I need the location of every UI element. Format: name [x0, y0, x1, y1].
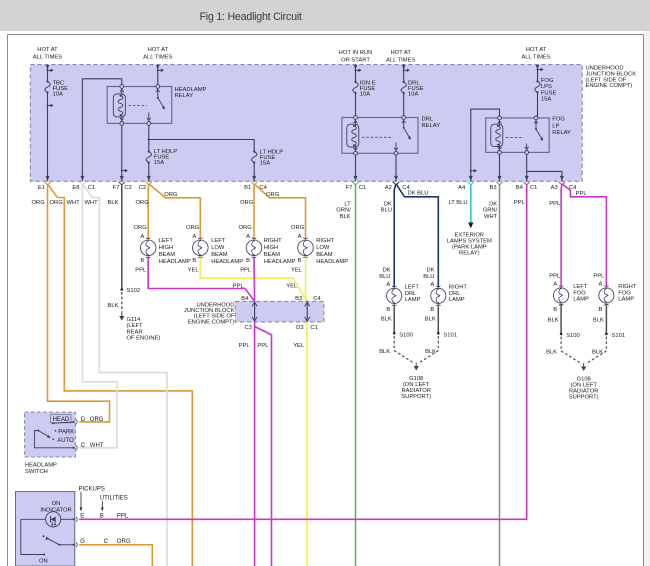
ON indicator internal switch	[43, 535, 76, 546]
underhood junction block label	[586, 66, 637, 90]
svg-text:PARK: PARK	[58, 429, 74, 435]
svg-text:HOT IN RUN: HOT IN RUN	[339, 50, 373, 56]
svg-text:HOT AT: HOT AT	[390, 50, 411, 56]
wire label ORG	[164, 192, 178, 198]
pin E8 / C1	[72, 176, 95, 191]
svg-text:ORG: ORG	[90, 417, 104, 423]
wire DRL fuse feed	[402, 65, 410, 116]
svg-text:ORG: ORG	[164, 192, 178, 198]
svg-text:BLU: BLU	[381, 208, 392, 214]
svg-text:F7: F7	[113, 185, 120, 191]
wire IGN E feed	[354, 65, 362, 116]
svg-text:G114: G114	[127, 317, 142, 323]
svg-text:(PARK LAMP: (PARK LAMP	[452, 245, 487, 251]
svg-text:HEADLAMP: HEADLAMP	[159, 259, 191, 265]
svg-text:B: B	[100, 514, 104, 520]
fuse IGN E FUSE 10A	[353, 80, 376, 97]
svg-text:A: A	[553, 282, 557, 288]
wire WHT from C1 running off page	[82, 184, 167, 566]
svg-text:B: B	[298, 258, 302, 264]
small junction block label	[184, 302, 235, 325]
wire YEL left low beam to junction block B3	[188, 257, 308, 301]
ON indicator lower contact	[21, 519, 48, 564]
svg-text:B3: B3	[490, 185, 497, 191]
svg-text:BLK: BLK	[592, 349, 603, 355]
svg-text:BLK: BLK	[546, 349, 557, 355]
svg-text:BEAM: BEAM	[159, 252, 176, 258]
svg-text:A2: A2	[385, 185, 392, 191]
svg-text:ORG: ORG	[134, 225, 148, 231]
svg-text:ORG: ORG	[240, 200, 254, 206]
svg-text:PPL: PPL	[239, 343, 251, 349]
pin F7 / C2	[113, 176, 132, 191]
wire headlamp relay coil to ground pin	[121, 125, 128, 181]
svg-text:BLK: BLK	[425, 317, 436, 323]
svg-text:HIGH: HIGH	[264, 245, 279, 251]
wire ORG B1/C4 to right low beam headlamp	[254, 184, 305, 239]
feed label HOT AT ALL TIMES (DRL fuse)	[386, 50, 415, 64]
lamp right fog lamp	[599, 282, 637, 313]
lamp left DRL lamp	[386, 282, 420, 313]
svg-text:A: A	[430, 282, 434, 288]
svg-text:REAR: REAR	[127, 329, 143, 335]
svg-text:PPL: PPL	[240, 268, 252, 274]
wire label ORG	[186, 225, 200, 231]
svg-text:RIGHT: RIGHT	[449, 285, 467, 291]
svg-text:BLK: BLK	[108, 200, 119, 206]
svg-text:ALL TIMES: ALL TIMES	[386, 58, 415, 64]
svg-text:AUTO: AUTO	[57, 438, 74, 444]
DRL relay switch	[362, 116, 411, 156]
headlamp switch lever and common	[35, 430, 75, 448]
svg-text:C4: C4	[313, 296, 321, 302]
svg-text:PPL: PPL	[135, 268, 147, 274]
wire ORG from E1 branch running off page	[48, 184, 193, 566]
svg-text:DRL: DRL	[422, 117, 434, 123]
headlamp switch HEAD position	[51, 415, 75, 425]
svg-text:OR START: OR START	[341, 58, 370, 64]
svg-text:DRL: DRL	[449, 291, 461, 297]
svg-text:BLK: BLK	[379, 349, 390, 355]
wire headlamp relay output	[148, 125, 255, 181]
svg-text:A: A	[599, 282, 603, 288]
wire BLK left DRL lamp to splice S100	[381, 305, 395, 334]
svg-text:RIGHT: RIGHT	[618, 284, 636, 290]
svg-text:LAMP: LAMP	[618, 297, 634, 303]
svg-text:ORG: ORG	[50, 200, 64, 206]
headlamp relay switch	[129, 85, 166, 126]
svg-text:YEL: YEL	[188, 268, 200, 274]
wire BLK dashed to ground G114	[108, 292, 122, 313]
svg-text:LP: LP	[552, 123, 559, 129]
relay FOG LP RELAY	[486, 117, 571, 153]
svg-text:E8: E8	[72, 185, 79, 191]
svg-text:HEADLAMP: HEADLAMP	[264, 259, 296, 265]
wire LT GRN/BLK from F7/C1 running off page	[336, 184, 355, 566]
svg-text:BLK: BLK	[108, 303, 119, 309]
ON indicator box	[16, 492, 75, 566]
svg-text:C1: C1	[88, 185, 95, 191]
splice S101 (fog)	[605, 333, 625, 339]
svg-text:ENGINE COMPT): ENGINE COMPT)	[188, 319, 235, 325]
svg-text:B4: B4	[241, 296, 249, 302]
wire FOG relay output to pins B4 and A3	[527, 154, 562, 181]
svg-text:S101: S101	[612, 333, 626, 339]
svg-text:DK: DK	[382, 268, 390, 274]
svg-text:HEADLAMP: HEADLAMP	[25, 462, 57, 468]
svg-text:FOG: FOG	[573, 290, 586, 296]
underhood junction block (main)	[30, 65, 582, 182]
headlamp relay coil	[113, 85, 125, 126]
wire BLK right fog lamp to splice S101	[593, 304, 607, 334]
fuse DRL FUSE 10A	[401, 80, 424, 97]
svg-text:PPL: PPL	[233, 283, 245, 289]
title bar	[0, 0, 650, 31]
wire YEL from D3/C1 running off page	[293, 322, 307, 566]
wire DK GRN/WHT from B3 running off page	[483, 184, 500, 566]
wire BLK to splice S102	[108, 184, 122, 290]
svg-text:BLU: BLU	[379, 274, 390, 280]
wire label ORG	[134, 225, 148, 231]
svg-text:C2: C2	[139, 185, 146, 191]
feed label HOT IN RUN OR START	[339, 50, 373, 64]
wire BLK left fog lamp to splice S100	[548, 304, 562, 334]
svg-text:B4: B4	[516, 185, 524, 191]
splice S100	[393, 332, 413, 338]
wire DRL relay coil to pin F7	[355, 155, 357, 181]
svg-text:PPL: PPL	[549, 201, 561, 207]
wire BLK right DRL lamp to splice S101	[425, 305, 439, 334]
svg-text:YEL: YEL	[286, 283, 298, 289]
svg-text:FOG: FOG	[541, 78, 554, 84]
svg-text:ORG: ORG	[291, 225, 305, 231]
pin A4	[458, 176, 474, 191]
LED ON indicator	[21, 512, 75, 527]
svg-text:DK BLU: DK BLU	[408, 191, 429, 197]
wire WHT from E8 to headlamp switch pin C	[79, 184, 117, 448]
wire ORG C2 to left high beam headlamp	[147, 184, 150, 239]
svg-text:RIGHT: RIGHT	[264, 238, 282, 244]
svg-text:ALL TIMES: ALL TIMES	[521, 54, 550, 60]
pin A2 / C4	[385, 176, 411, 191]
connector pin D	[73, 417, 104, 424]
svg-text:PPL: PPL	[514, 200, 526, 206]
svg-text:PPL: PPL	[117, 514, 129, 520]
wire label ORG	[266, 192, 280, 198]
svg-text:F7: F7	[346, 185, 353, 191]
splice S100 (fog)	[560, 333, 580, 339]
svg-text:C3: C3	[244, 325, 251, 331]
lamp right DRL lamp	[430, 282, 467, 313]
svg-text:LAMPS SYSTEM: LAMPS SYSTEM	[447, 238, 492, 244]
DRL relay coil	[347, 116, 359, 156]
wire label ORG	[240, 200, 254, 206]
splice S102	[121, 288, 141, 294]
lamp right high beam headlamp	[246, 234, 296, 265]
wire DRL relay output to pin A2	[395, 155, 397, 181]
connector pin G	[73, 539, 131, 547]
ground G114 (LEFT REAR OF ENGINE)	[119, 313, 160, 342]
wire PPL right high beam to junction block B4	[240, 257, 254, 301]
headlamp switch PARK position	[55, 429, 75, 435]
fuse FOG LPS FUSE 15A	[535, 78, 557, 103]
svg-text:RELAY): RELAY)	[459, 251, 480, 257]
pin C2	[139, 176, 152, 191]
svg-text:WHT: WHT	[85, 200, 99, 206]
svg-text:DK: DK	[426, 268, 434, 274]
splice S101	[437, 332, 457, 338]
svg-text:S102: S102	[127, 288, 141, 294]
pin B3	[490, 176, 503, 191]
svg-text:BLK: BLK	[425, 349, 436, 355]
svg-text:HIGH: HIGH	[159, 245, 174, 251]
wire label ORG	[291, 225, 305, 231]
svg-text:LEFT: LEFT	[405, 285, 420, 291]
relay DRL RELAY	[342, 117, 440, 154]
svg-text:B: B	[246, 258, 250, 264]
small junction block pin B3-C4/D3-C1	[295, 296, 321, 331]
svg-text:15A: 15A	[541, 97, 551, 103]
svg-text:ENGINE COMPT): ENGINE COMPT)	[586, 83, 633, 89]
wire PPL from C3 running off page	[239, 322, 255, 566]
svg-text:DK: DK	[384, 202, 392, 208]
svg-text:BLK: BLK	[381, 317, 392, 323]
svg-text:A: A	[386, 282, 390, 288]
svg-text:S100: S100	[566, 333, 580, 339]
wire ORG from E1 to headlamp switch HEAD pin D	[48, 184, 110, 422]
wire DK BLU A2/C4 to right DRL lamp	[396, 184, 438, 287]
svg-text:PICKUPS: PICKUPS	[79, 486, 105, 492]
pin A3 / C4	[551, 176, 577, 191]
svg-text:A4: A4	[458, 185, 466, 191]
wire PPL A3/C4 to right fog lamp	[562, 184, 607, 287]
svg-text:DK: DK	[489, 202, 497, 208]
wire label WHT	[85, 200, 99, 206]
ground G108 (ON LEFT RADIATOR SUPPORT) DRL	[401, 363, 431, 401]
svg-text:GRN/: GRN/	[336, 208, 351, 214]
fuse TBC FUSE 10A	[45, 80, 68, 97]
wire ORG B1/C4 to right high beam headlamp	[253, 184, 255, 239]
svg-text:ORG: ORG	[186, 225, 200, 231]
svg-text:B: B	[430, 307, 434, 313]
svg-text:C1: C1	[310, 325, 317, 331]
svg-text:WHT: WHT	[90, 443, 104, 449]
svg-text:E: E	[80, 514, 84, 520]
underhood junction block (small)	[235, 301, 324, 322]
svg-text:15A: 15A	[154, 160, 164, 166]
wire PPL from B4/C1 to ON indicator pin E	[79, 184, 527, 520]
svg-text:S101: S101	[443, 332, 457, 338]
svg-text:ORG: ORG	[266, 192, 280, 198]
wire FOG relay coil feed from pin A4	[470, 109, 500, 181]
svg-text:OF ENGINE): OF ENGINE)	[127, 336, 161, 342]
pin B1 / C4	[244, 176, 267, 191]
lamp left low beam headlamp	[192, 234, 243, 265]
svg-text:Fig 1: Headlight Circuit: Fig 1: Headlight Circuit	[200, 11, 302, 23]
wire DK BLU A2/C4 to left DRL lamp	[379, 184, 396, 287]
svg-text:RELAY: RELAY	[552, 130, 571, 136]
wire ORG from pin G running off page	[79, 545, 152, 566]
svg-text:WHT: WHT	[67, 200, 81, 206]
svg-text:SUPPORT): SUPPORT)	[569, 395, 599, 401]
svg-text:10A: 10A	[408, 92, 418, 98]
svg-text:FOG: FOG	[618, 290, 631, 296]
svg-text:WHT: WHT	[484, 214, 498, 220]
svg-text:BLK: BLK	[548, 317, 559, 323]
svg-text:GRN/: GRN/	[483, 208, 498, 214]
wire LT BLU from A4 to exterior lamps system	[448, 184, 473, 229]
headlamp switch box	[25, 412, 76, 475]
wire FOG LPS feed	[536, 65, 544, 117]
svg-text:B: B	[140, 258, 144, 264]
wire ORG C2 to left low beam headlamp	[149, 184, 201, 239]
ground G108 (ON LEFT RADIATOR SUPPORT) fog	[569, 363, 599, 401]
svg-text:A3: A3	[551, 185, 558, 191]
svg-text:PPL: PPL	[549, 274, 561, 280]
svg-text:DRL: DRL	[405, 291, 417, 297]
svg-text:UTILITIES: UTILITIES	[100, 496, 128, 502]
connector pin E	[73, 514, 129, 522]
svg-text:YEL: YEL	[291, 268, 303, 274]
svg-text:PPL: PPL	[257, 343, 269, 349]
svg-text:B1: B1	[244, 185, 251, 191]
svg-text:B: B	[599, 307, 603, 313]
headlamp switch AUTO position	[52, 438, 74, 444]
feed label HOT AT ALL TIMES (headlamp relay)	[143, 47, 172, 61]
relay HEADLAMP RELAY	[107, 87, 206, 124]
svg-text:E1: E1	[38, 185, 45, 191]
wire YEL right low beam to junction block C4	[291, 257, 307, 301]
svg-text:LT BLU: LT BLU	[448, 200, 467, 206]
svg-text:C2: C2	[124, 185, 131, 191]
wire label ORG	[136, 200, 150, 206]
svg-text:HOT AT: HOT AT	[37, 47, 58, 53]
wire headlamp relay feed	[156, 65, 164, 85]
svg-text:C1: C1	[530, 185, 537, 191]
svg-text:PPL: PPL	[576, 191, 588, 197]
pin B4 / C1	[516, 176, 538, 191]
svg-text:C1: C1	[359, 185, 366, 191]
svg-text:SWITCH: SWITCH	[25, 469, 48, 475]
wire headlamp relay coil feed	[82, 79, 121, 182]
wire label ORG	[239, 225, 253, 231]
svg-text:EXTERIOR: EXTERIOR	[454, 232, 484, 238]
wire FOG relay coil to pin B3	[499, 154, 501, 181]
svg-text:LEFT: LEFT	[211, 238, 226, 244]
svg-text:LOW: LOW	[211, 245, 225, 251]
svg-text:LAMP: LAMP	[405, 297, 421, 303]
node EXTERIOR LAMPS SYSTEM (PARK LAMP RELAY)	[447, 232, 492, 256]
FOG relay coil	[491, 116, 503, 154]
svg-text:BLK: BLK	[593, 317, 604, 323]
svg-text:FOG: FOG	[552, 117, 565, 123]
svg-text:S100: S100	[399, 332, 413, 338]
FOG relay switch	[506, 116, 543, 154]
svg-text:B: B	[386, 307, 390, 313]
wire label ORG	[32, 200, 46, 206]
svg-text:B: B	[192, 258, 196, 264]
svg-text:A: A	[246, 234, 250, 240]
lamp left high beam headlamp	[140, 234, 190, 265]
svg-text:ALL TIMES: ALL TIMES	[33, 54, 62, 60]
wire PPL A3/C4 to left fog lamp	[549, 184, 562, 287]
svg-text:BEAM: BEAM	[264, 252, 281, 258]
wire TBC feed	[46, 65, 54, 182]
svg-text:LEFT: LEFT	[159, 238, 174, 244]
svg-text:HOT AT: HOT AT	[148, 47, 169, 53]
svg-text:HEADLAMP: HEADLAMP	[316, 259, 348, 265]
svg-text:YEL: YEL	[293, 343, 305, 349]
svg-text:LAMP: LAMP	[449, 297, 465, 303]
small junction block pin B4/C3	[241, 296, 257, 331]
svg-text:LPS: LPS	[541, 84, 552, 90]
svg-text:ORG: ORG	[239, 225, 253, 231]
wire PPL left high beam to junction block B4	[135, 257, 254, 301]
svg-text:HEADLAMP: HEADLAMP	[211, 259, 243, 265]
wire PPL branch from C3 running off page	[255, 327, 272, 566]
svg-text:D: D	[81, 417, 86, 423]
svg-text:LT: LT	[344, 202, 351, 208]
svg-text:15A: 15A	[260, 161, 270, 167]
svg-text:PPL: PPL	[593, 274, 605, 280]
wire BLK dashed splices to ground G108 (DRL)	[379, 336, 438, 363]
svg-text:ON: ON	[39, 558, 48, 564]
svg-text:BLU: BLU	[423, 274, 434, 280]
svg-text:FUSE: FUSE	[541, 90, 557, 96]
svg-text:10A: 10A	[53, 92, 63, 98]
svg-text:BEAM: BEAM	[211, 252, 228, 258]
svg-text:RIGHT: RIGHT	[316, 238, 334, 244]
wire BLK dashed splices to ground G108 (fog)	[546, 337, 606, 363]
svg-text:HOT AT: HOT AT	[526, 47, 547, 53]
svg-text:RELAY: RELAY	[422, 123, 441, 129]
wire label ORG	[50, 200, 64, 206]
pin E1	[38, 176, 51, 191]
svg-text:LOW: LOW	[316, 245, 330, 251]
svg-text:HEADLAMP: HEADLAMP	[175, 87, 207, 93]
svg-text:(LEFT: (LEFT	[127, 323, 144, 329]
feed label HOT AT ALL TIMES (fog)	[521, 47, 550, 61]
svg-text:ORG: ORG	[32, 200, 46, 206]
wire label WHT	[67, 200, 81, 206]
lamp left fog lamp	[553, 282, 589, 313]
svg-text:B3: B3	[295, 296, 302, 302]
label UTILITIES with arrow	[100, 496, 128, 512]
fuse LT HDLP FUSE 15A (right)	[252, 149, 284, 166]
svg-text:BEAM: BEAM	[316, 252, 333, 258]
svg-text:LAMP: LAMP	[573, 297, 589, 303]
svg-text:ALL TIMES: ALL TIMES	[143, 54, 172, 60]
lamp right low beam headlamp	[298, 234, 349, 265]
svg-text:SUPPORT): SUPPORT)	[401, 394, 431, 400]
svg-text:A: A	[298, 234, 302, 240]
svg-text:RELAY: RELAY	[175, 93, 194, 99]
connector pin C	[73, 443, 104, 450]
feed label HOT AT ALL TIMES (TBC)	[33, 47, 62, 61]
svg-text:A: A	[192, 234, 196, 240]
pin F7 / C1	[346, 176, 366, 191]
svg-text:BLK: BLK	[340, 214, 351, 220]
svg-text:D3: D3	[296, 325, 303, 331]
svg-text:C: C	[81, 443, 86, 449]
svg-text:B: B	[553, 307, 557, 313]
svg-text:ORG: ORG	[136, 200, 150, 206]
fuse LT HDLP FUSE 15A (left)	[146, 149, 177, 166]
svg-text:LEFT: LEFT	[573, 284, 588, 290]
svg-text:ON: ON	[52, 501, 61, 507]
label PICKUPS with arrow	[79, 486, 105, 511]
svg-text:A: A	[140, 234, 144, 240]
